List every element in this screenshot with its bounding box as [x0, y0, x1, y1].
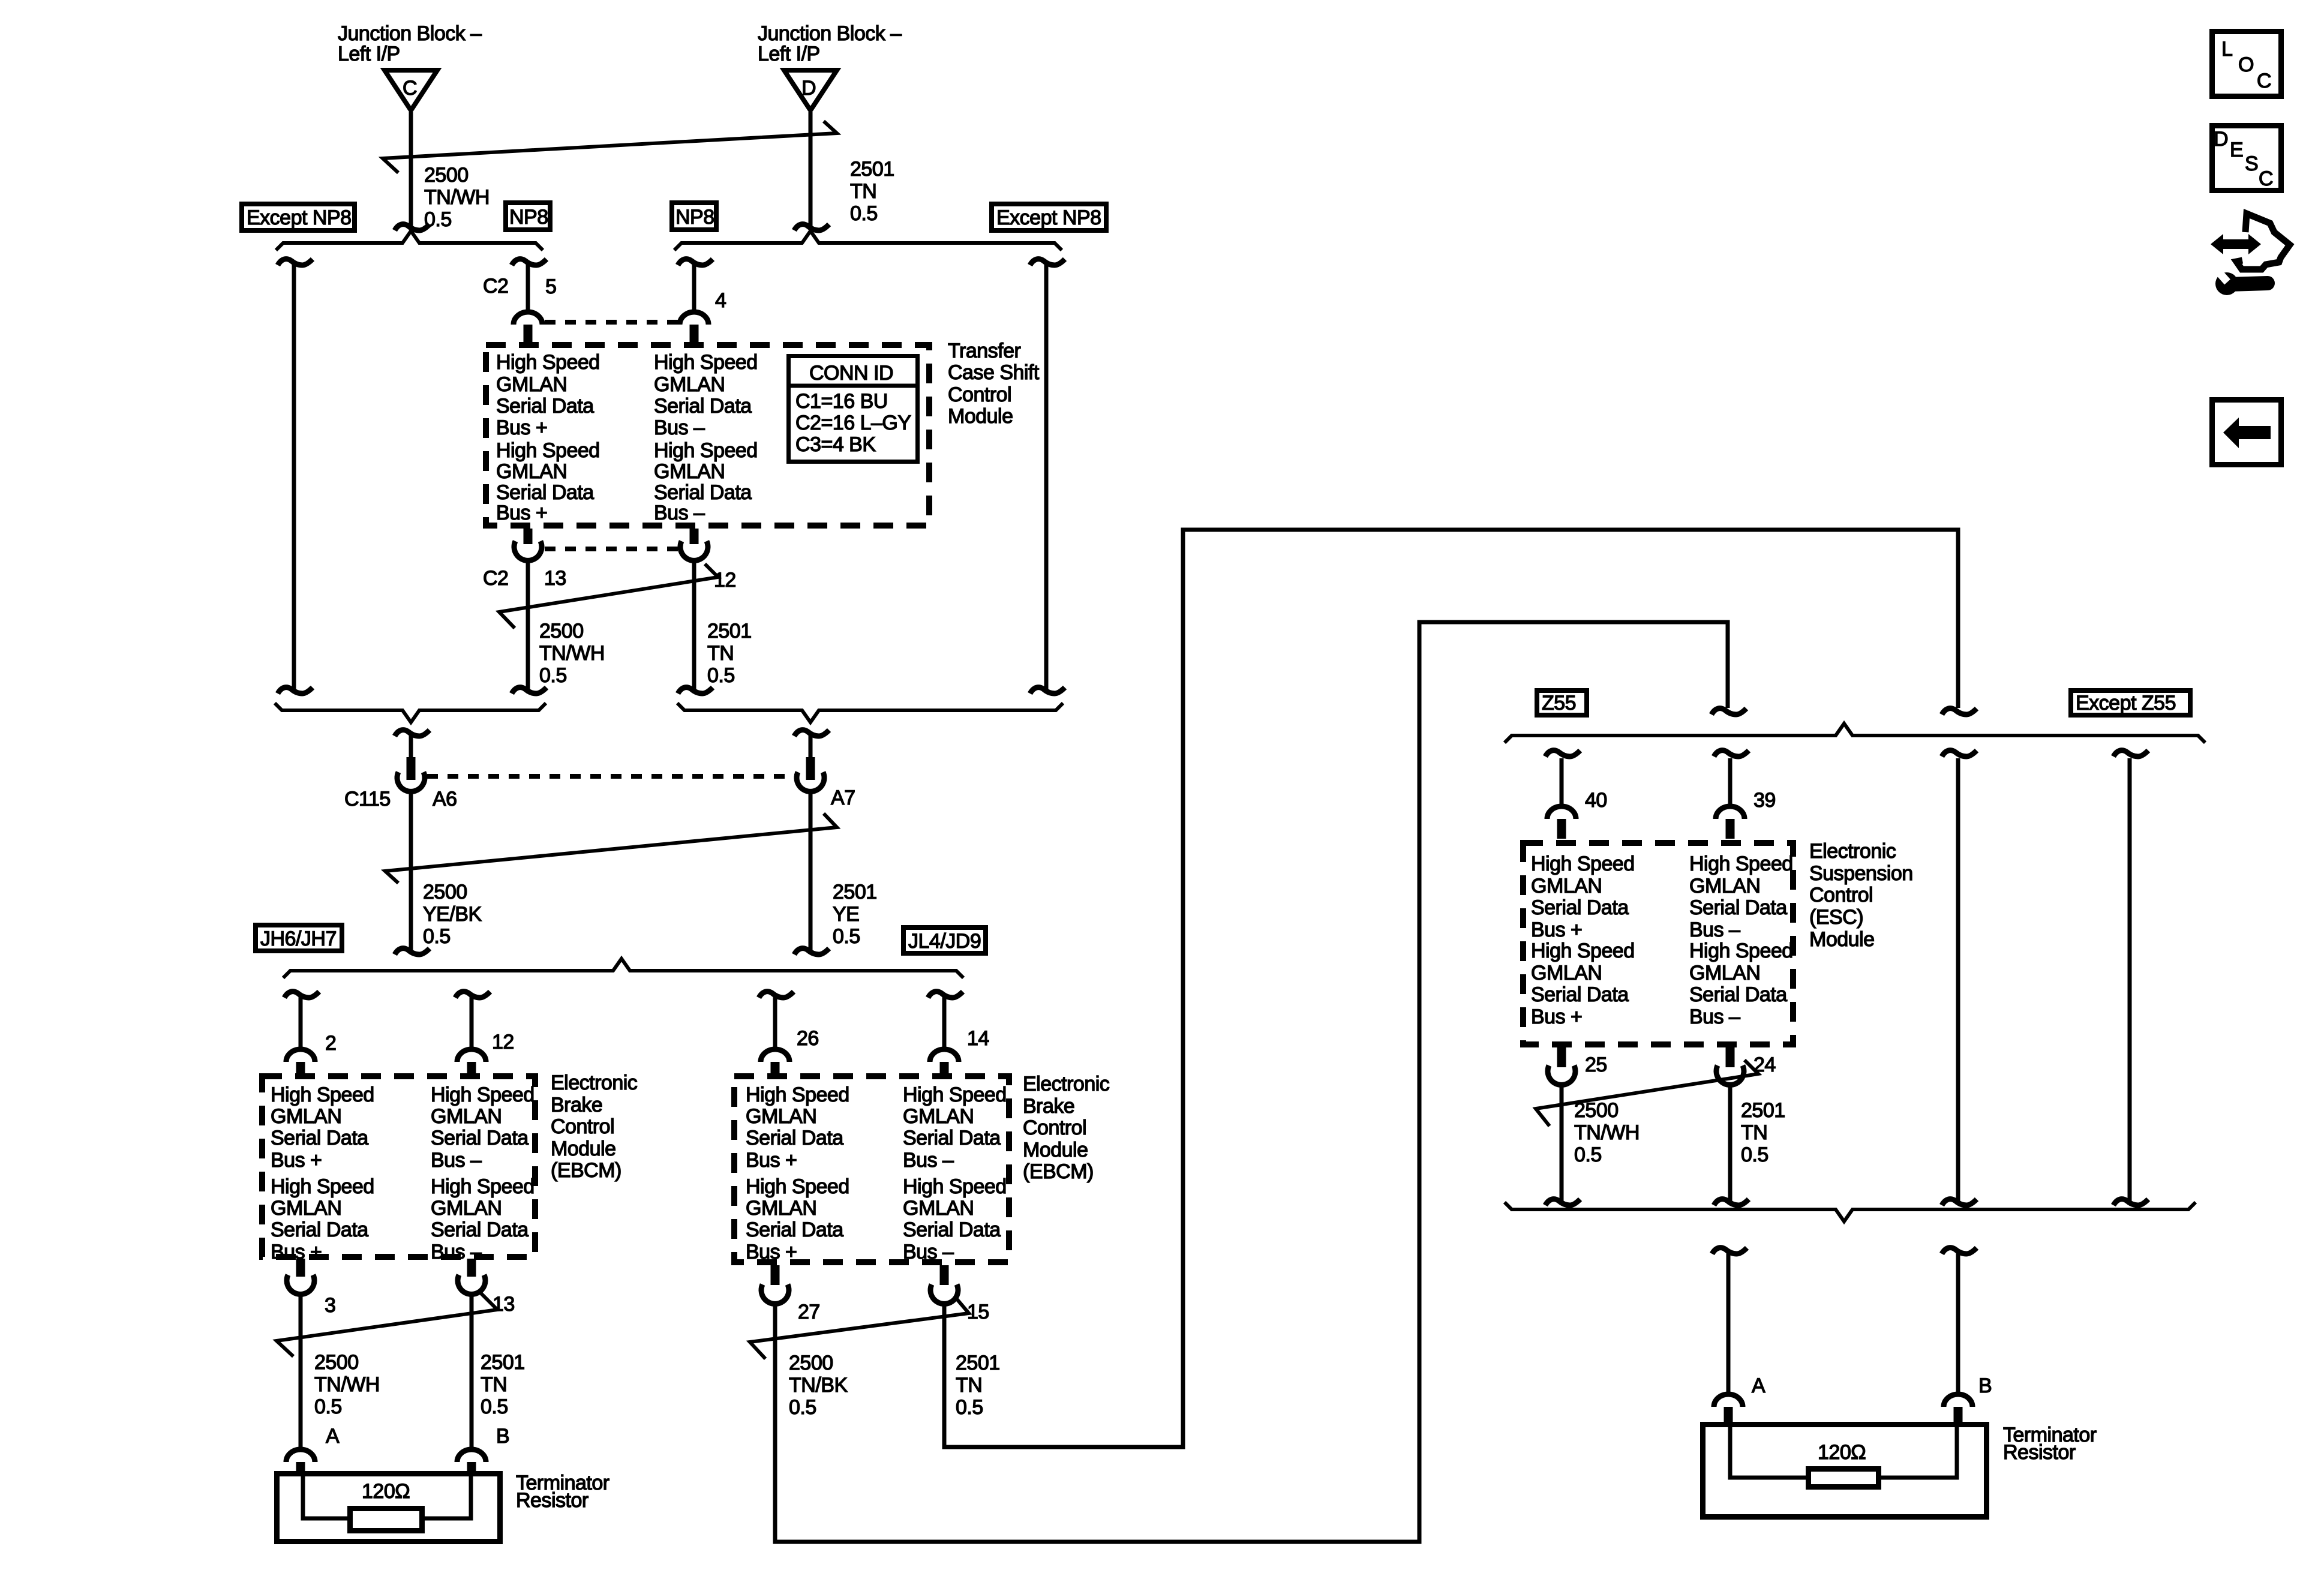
- svg-text:GMLAN: GMLAN: [1531, 875, 1602, 897]
- svg-text:Bus +: Bus +: [496, 416, 547, 439]
- svg-text:Z55: Z55: [1542, 692, 1576, 715]
- svg-text:(EBCM): (EBCM): [551, 1159, 621, 1182]
- connector arc pin 5: [514, 312, 542, 325]
- connector arc A right: [1714, 1394, 1743, 1407]
- svg-text:Brake: Brake: [551, 1094, 602, 1116]
- svg-text:Electronic: Electronic: [551, 1071, 638, 1094]
- connector arc A left: [286, 1449, 315, 1462]
- svg-text:A7: A7: [831, 787, 855, 809]
- hook above rejoin pin13: [512, 688, 547, 694]
- wire pin14: [942, 995, 947, 1050]
- svg-text:Bus –: Bus –: [903, 1241, 954, 1263]
- wire pin40: [1560, 758, 1564, 806]
- svg-text:2501: 2501: [833, 881, 877, 903]
- connector C2 dash line (top): [545, 320, 678, 325]
- svg-text:Module: Module: [1023, 1139, 1088, 1161]
- hook below rejoin brace 2: [794, 730, 829, 736]
- wire except-NP8 left branch: [292, 262, 296, 691]
- svg-text:C1=16 BU: C1=16 BU: [795, 390, 888, 413]
- svg-text:NP8: NP8: [509, 206, 548, 229]
- svg-text:40: 40: [1585, 789, 1607, 812]
- svg-text:0.5: 0.5: [789, 1396, 816, 1419]
- svg-text:High Speed: High Speed: [271, 1175, 374, 1198]
- svg-text:Serial Data: Serial Data: [431, 1218, 529, 1241]
- wire pin39: [1728, 758, 1733, 806]
- svg-text:Bus –: Bus –: [1689, 1005, 1740, 1028]
- svg-text:2501: 2501: [707, 620, 752, 643]
- hook riser B above Z55 brace: [1712, 709, 1746, 715]
- DESC icon box: [2212, 126, 2281, 191]
- svg-text:0.5: 0.5: [956, 1396, 983, 1419]
- svg-text:C115: C115: [344, 788, 391, 810]
- svg-text:GMLAN: GMLAN: [496, 460, 567, 483]
- svg-text:Bus +: Bus +: [496, 502, 547, 524]
- wire exceptZ55 line2: [2128, 758, 2132, 1202]
- wire pin15 routing to riser A: [944, 530, 1958, 1447]
- svg-text:High Speed: High Speed: [654, 351, 758, 374]
- svg-text:Module: Module: [1809, 928, 1875, 951]
- wire pin13b down: [470, 1292, 474, 1450]
- hook EBCM-L pin2: [284, 992, 319, 998]
- svg-text:2501: 2501: [481, 1351, 525, 1374]
- svg-text:B: B: [496, 1425, 509, 1448]
- svg-text:GMLAN: GMLAN: [271, 1197, 341, 1220]
- svg-text:14: 14: [967, 1027, 989, 1050]
- pin stub 15: [940, 1265, 949, 1285]
- svg-text:Module: Module: [948, 405, 1013, 428]
- pin stub 25: [1557, 1047, 1566, 1067]
- svg-text:Module: Module: [551, 1137, 616, 1160]
- svg-text:Transfer: Transfer: [948, 340, 1021, 362]
- svg-text:C2: C2: [483, 567, 508, 590]
- pin stub 12: [690, 529, 699, 544]
- resistor element left: [350, 1509, 422, 1531]
- rejoin brace 2 (to A7): [677, 703, 1063, 722]
- svg-text:High Speed: High Speed: [654, 439, 758, 462]
- svg-text:Suspension: Suspension: [1809, 862, 1913, 885]
- svg-text:2500: 2500: [789, 1352, 833, 1374]
- hook EBCM-L pin12: [455, 992, 490, 998]
- svg-text:Junction Block –: Junction Block –: [758, 22, 902, 45]
- terminator internal wires left: [303, 1471, 347, 1518]
- svg-text:GMLAN: GMLAN: [496, 373, 567, 396]
- connector cup pin 25: [1548, 1065, 1575, 1085]
- svg-text:Except Z55: Except Z55: [2076, 692, 2176, 715]
- svg-text:Serial Data: Serial Data: [654, 481, 752, 504]
- svg-text:High Speed: High Speed: [1689, 939, 1793, 962]
- option label JL4/JD9: [903, 927, 986, 953]
- svg-text:Brake: Brake: [1023, 1095, 1074, 1118]
- svg-text:Serial Data: Serial Data: [496, 481, 594, 504]
- svg-text:Control: Control: [948, 383, 1011, 406]
- svg-text:O: O: [2238, 53, 2254, 76]
- hook exceptZ55 line2 below brace: [2113, 751, 2148, 757]
- svg-text:2500: 2500: [423, 881, 467, 903]
- svg-text:Serial Data: Serial Data: [746, 1127, 843, 1149]
- wire except-NP8 right branch: [1044, 262, 1049, 691]
- svg-text:B: B: [1978, 1374, 1992, 1397]
- svg-text:Bus –: Bus –: [1689, 918, 1740, 941]
- svg-text:GMLAN: GMLAN: [903, 1105, 974, 1128]
- svg-text:0.5: 0.5: [314, 1395, 342, 1418]
- svg-text:25: 25: [1585, 1053, 1607, 1076]
- wire exceptZ55 line1: [1956, 758, 1960, 1202]
- svg-text:0.5: 0.5: [539, 664, 567, 687]
- svg-text:13: 13: [544, 567, 566, 590]
- svg-text:2500: 2500: [424, 164, 469, 187]
- connector cup pin 13b: [458, 1275, 485, 1294]
- wire pin2: [299, 995, 303, 1050]
- wire to terminator B right: [1956, 1251, 1960, 1395]
- svg-text:2500: 2500: [539, 620, 584, 643]
- svg-text:A: A: [326, 1425, 340, 1448]
- svg-text:C: C: [2257, 70, 2271, 92]
- svg-text:GMLAN: GMLAN: [746, 1197, 816, 1220]
- wire pin13 down: [526, 558, 530, 691]
- svg-text:Serial Data: Serial Data: [1531, 983, 1629, 1006]
- svg-text:2501: 2501: [956, 1352, 1000, 1374]
- svg-text:Left I/P: Left I/P: [758, 43, 820, 65]
- svg-text:Bus –: Bus –: [431, 1149, 482, 1172]
- svg-text:GMLAN: GMLAN: [1689, 875, 1760, 897]
- svg-text:D: D: [801, 77, 816, 100]
- svg-text:0.5: 0.5: [1574, 1143, 1602, 1166]
- svg-text:High Speed: High Speed: [496, 439, 600, 462]
- svg-text:Junction Block –: Junction Block –: [338, 22, 482, 45]
- svg-text:13: 13: [493, 1293, 515, 1316]
- svg-text:Serial Data: Serial Data: [1689, 983, 1787, 1006]
- terminator internal wires right: [1730, 1422, 1806, 1478]
- hook riser A above Z55 brace: [1942, 709, 1977, 715]
- terminator resistor box left: [277, 1474, 500, 1542]
- connector cup pin 13: [514, 541, 542, 560]
- pin stub 13: [524, 529, 533, 544]
- connector arc B right: [1944, 1394, 1972, 1407]
- hook below rejoin brace 1: [395, 730, 430, 736]
- svg-text:GMLAN: GMLAN: [654, 373, 725, 396]
- hook exceptZ55 line2 above lower Z55 brace: [2113, 1199, 2148, 1205]
- hook exceptZ55 line1 above lower Z55 brace: [1942, 1199, 1977, 1205]
- svg-text:YE: YE: [833, 903, 859, 926]
- ESC module box: [1523, 843, 1793, 1044]
- svg-text:C: C: [2259, 167, 2273, 190]
- service icon wrench: [2229, 283, 2268, 284]
- connector C115 dash line: [427, 774, 795, 779]
- svg-text:High Speed: High Speed: [1531, 939, 1635, 962]
- svg-text:0.5: 0.5: [1741, 1143, 1768, 1166]
- svg-text:TN: TN: [481, 1373, 507, 1396]
- hook pin25 wire above lower Z55 brace: [1545, 1199, 1580, 1205]
- connector cup C115 A7: [797, 772, 824, 791]
- wire NP8 pin5 drop: [526, 262, 530, 313]
- hook above JH brace A7: [794, 948, 829, 954]
- option label Except Z55: [2071, 691, 2190, 715]
- svg-text:Bus +: Bus +: [1531, 1005, 1582, 1028]
- svg-text:Bus +: Bus +: [746, 1149, 797, 1172]
- wire to C115 A6: [409, 733, 413, 760]
- svg-text:S: S: [2245, 152, 2258, 175]
- pin stub 13b: [467, 1259, 476, 1277]
- option label Z55: [1537, 691, 1587, 715]
- svg-text:Control: Control: [551, 1115, 614, 1138]
- svg-text:D: D: [2214, 128, 2228, 151]
- wire break hook under D: [794, 224, 829, 230]
- back arrow icon box: [2212, 400, 2281, 465]
- svg-text:High Speed: High Speed: [903, 1083, 1007, 1106]
- svg-text:Bus +: Bus +: [271, 1149, 322, 1172]
- svg-text:High Speed: High Speed: [271, 1083, 374, 1106]
- hook above rejoin left-branch: [278, 688, 313, 694]
- svg-text:JL4/JD9: JL4/JD9: [908, 930, 981, 953]
- svg-text:TN/WH: TN/WH: [539, 642, 605, 665]
- pin stub 3: [296, 1259, 305, 1277]
- svg-text:2500: 2500: [1574, 1099, 1619, 1122]
- svg-text:Except NP8: Except NP8: [247, 206, 352, 229]
- transfer case module box: [486, 345, 929, 526]
- svg-text:NP8: NP8: [675, 206, 714, 229]
- svg-text:Serial Data: Serial Data: [746, 1218, 843, 1241]
- svg-text:Electronic: Electronic: [1809, 840, 1896, 863]
- connector arc pin 40: [1547, 806, 1576, 819]
- twisted pair line top: [383, 121, 837, 173]
- svg-text:C2: C2: [483, 275, 508, 298]
- Z55 split brace: [1505, 724, 2205, 743]
- pin stub 4: [690, 325, 699, 343]
- svg-text:High Speed: High Speed: [746, 1083, 849, 1106]
- option brace 2 (D split): [674, 231, 1062, 250]
- svg-text:39: 39: [1753, 789, 1776, 812]
- svg-text:TN: TN: [956, 1374, 982, 1397]
- svg-text:15: 15: [967, 1301, 989, 1323]
- wire to C115 A7: [809, 733, 813, 760]
- hook EBCM-R pin26: [759, 992, 794, 998]
- service icon connector outline: [2236, 214, 2290, 269]
- wire D vertical: [809, 112, 813, 229]
- hook above JH brace A6: [395, 948, 430, 954]
- svg-text:Serial Data: Serial Data: [431, 1127, 529, 1149]
- svg-text:Serial Data: Serial Data: [271, 1218, 368, 1241]
- svg-text:Serial Data: Serial Data: [1689, 896, 1787, 919]
- svg-text:GMLAN: GMLAN: [431, 1197, 502, 1220]
- connector cup pin 24: [1716, 1065, 1744, 1085]
- resistor element right: [1809, 1469, 1879, 1487]
- svg-text:5: 5: [545, 275, 556, 298]
- svg-text:Resistor: Resistor: [2003, 1441, 2076, 1464]
- EBCM right module box: [734, 1076, 1009, 1262]
- svg-text:GMLAN: GMLAN: [271, 1105, 341, 1128]
- svg-text:Control: Control: [1809, 884, 1873, 906]
- split brace (EBCM split): [283, 959, 963, 978]
- hook EBCM-R pin14: [928, 992, 963, 998]
- svg-text:A: A: [1752, 1374, 1765, 1397]
- svg-text:High Speed: High Speed: [1531, 852, 1635, 875]
- option label NP8 (left): [506, 203, 550, 230]
- pin stub 27: [771, 1265, 780, 1285]
- option label Except NP8 (left): [242, 204, 355, 230]
- option label Except NP8 (right): [992, 204, 1106, 230]
- pin stub A6: [407, 757, 416, 780]
- svg-text:YE/BK: YE/BK: [423, 903, 482, 926]
- svg-text:GMLAN: GMLAN: [1531, 962, 1602, 984]
- rejoin brace 1 (to A6): [275, 703, 546, 722]
- wire pin26: [773, 995, 777, 1050]
- connector cup pin 12: [680, 541, 708, 560]
- connector arc B left: [457, 1449, 486, 1462]
- option label JH6/JH7: [256, 925, 342, 951]
- hook below rejoin to terminator A: [1712, 1248, 1747, 1254]
- connector arc pin 12: [457, 1049, 486, 1062]
- svg-text:0.5: 0.5: [707, 664, 735, 687]
- twisted pair line (ESC): [1536, 1060, 1758, 1126]
- twisted pair line (C2 bottom): [499, 564, 718, 628]
- Z55 rejoin brace: [1505, 1202, 2196, 1221]
- hook branch except-NP8 left: [278, 259, 313, 265]
- terminator resistor box right: [1703, 1425, 1987, 1517]
- svg-text:Bus –: Bus –: [654, 502, 705, 524]
- svg-text:Serial Data: Serial Data: [496, 395, 594, 418]
- hook above rejoin pin12: [678, 688, 713, 694]
- svg-text:GMLAN: GMLAN: [431, 1105, 502, 1128]
- svg-text:Serial Data: Serial Data: [1531, 896, 1629, 919]
- service icon double arrow: [2211, 234, 2261, 254]
- connector triangle D: [784, 70, 837, 110]
- svg-text:Case Shift: Case Shift: [948, 361, 1040, 384]
- svg-text:Serial Data: Serial Data: [903, 1127, 1001, 1149]
- connector arc pin 39: [1716, 806, 1744, 819]
- svg-text:GMLAN: GMLAN: [746, 1105, 816, 1128]
- svg-text:Serial Data: Serial Data: [271, 1127, 368, 1149]
- svg-text:Serial Data: Serial Data: [903, 1218, 1001, 1241]
- hook branch except-NP8 right: [1030, 259, 1065, 265]
- hook below rejoin to terminator B: [1942, 1248, 1977, 1254]
- pin stub 24: [1726, 1047, 1735, 1067]
- svg-text:High Speed: High Speed: [903, 1175, 1007, 1198]
- svg-text:26: 26: [797, 1027, 819, 1050]
- wire pin25 down: [1560, 1082, 1564, 1202]
- svg-text:(ESC): (ESC): [1809, 906, 1863, 929]
- svg-text:Electronic: Electronic: [1023, 1073, 1110, 1095]
- svg-text:A6: A6: [433, 788, 457, 810]
- svg-text:L: L: [2221, 38, 2232, 61]
- twisted pair line (EBCM-L): [277, 1293, 497, 1356]
- hook exceptZ55 line1 below brace: [1942, 751, 1977, 757]
- hook pin24 wire above lower Z55 brace: [1714, 1199, 1749, 1205]
- pin stub 5: [524, 325, 533, 343]
- wire pin3 down: [299, 1292, 303, 1450]
- svg-text:0.5: 0.5: [481, 1395, 508, 1418]
- wire NP8 pin4 drop: [692, 262, 696, 313]
- svg-text:12: 12: [492, 1031, 514, 1053]
- svg-text:2501: 2501: [1741, 1099, 1785, 1122]
- wire C vertical: [409, 112, 413, 229]
- svg-text:High Speed: High Speed: [496, 351, 600, 374]
- svg-text:0.5: 0.5: [850, 202, 878, 225]
- svg-text:Bus +: Bus +: [746, 1241, 797, 1263]
- wire to terminator A right: [1727, 1251, 1731, 1395]
- wire pin24 down: [1728, 1082, 1733, 1202]
- svg-text:High Speed: High Speed: [431, 1083, 535, 1106]
- hook above rejoin right-branch: [1030, 688, 1065, 694]
- EBCM left module box: [262, 1076, 535, 1257]
- twisted pair line (C115): [385, 813, 837, 883]
- hook branch NP8 pin4: [678, 259, 713, 265]
- LOC icon box: [2212, 32, 2281, 97]
- svg-text:TN/WH: TN/WH: [1574, 1121, 1640, 1144]
- svg-text:E: E: [2230, 139, 2243, 161]
- svg-text:0.5: 0.5: [833, 925, 860, 948]
- wire A7 down: [809, 789, 813, 953]
- connector arc pin 2: [286, 1049, 315, 1062]
- svg-text:120Ω: 120Ω: [1818, 1441, 1866, 1464]
- connector C2 dash line (bottom): [545, 547, 678, 551]
- svg-text:2: 2: [325, 1032, 336, 1055]
- svg-text:GMLAN: GMLAN: [903, 1197, 974, 1220]
- option label NP8 (right): [672, 203, 716, 230]
- svg-text:High Speed: High Speed: [1689, 852, 1793, 875]
- svg-text:27: 27: [798, 1301, 820, 1323]
- svg-text:120Ω: 120Ω: [362, 1480, 410, 1503]
- connector arc pin 4: [680, 312, 708, 325]
- svg-text:C3=4 BK: C3=4 BK: [795, 433, 876, 456]
- svg-text:C2=16 L–GY: C2=16 L–GY: [795, 412, 911, 434]
- svg-text:TN/WH: TN/WH: [424, 186, 490, 209]
- svg-text:GMLAN: GMLAN: [654, 460, 725, 483]
- connector triangle C: [385, 70, 437, 110]
- svg-text:Control: Control: [1023, 1116, 1086, 1139]
- svg-text:4: 4: [715, 289, 726, 312]
- twisted pair line (EBCM-R): [750, 1298, 969, 1359]
- wire pin12: [470, 995, 474, 1050]
- svg-text:Bus –: Bus –: [654, 416, 705, 439]
- connector cup pin 3: [287, 1275, 314, 1294]
- svg-text:TN: TN: [1741, 1121, 1767, 1144]
- wire pin27 routing to riser B: [775, 622, 1728, 1542]
- svg-text:TN: TN: [850, 180, 876, 203]
- svg-text:TN: TN: [707, 642, 734, 665]
- connector cup pin 15: [930, 1284, 958, 1304]
- svg-text:Except NP8: Except NP8: [996, 206, 1101, 229]
- wire A6 down: [409, 789, 413, 953]
- svg-text:Serial Data: Serial Data: [654, 395, 752, 418]
- connector arc pin 14: [930, 1049, 959, 1062]
- connector cup pin 27: [761, 1284, 789, 1304]
- svg-text:0.5: 0.5: [423, 925, 451, 948]
- connector arc pin 26: [761, 1049, 789, 1062]
- svg-text:2500: 2500: [314, 1351, 359, 1374]
- hook pin39 below brace: [1714, 751, 1749, 757]
- pin stub A7: [806, 757, 815, 780]
- svg-text:High Speed: High Speed: [746, 1175, 849, 1198]
- svg-text:TN/BK: TN/BK: [789, 1374, 848, 1397]
- svg-text:12: 12: [714, 569, 736, 592]
- wire pin12 down: [692, 558, 696, 691]
- option brace 1 (C split): [276, 231, 543, 250]
- hook branch NP8 pin5: [512, 259, 547, 265]
- svg-text:Bus +: Bus +: [1531, 918, 1582, 941]
- connector cup C115 A6: [397, 772, 425, 791]
- svg-text:JH6/JH7: JH6/JH7: [260, 927, 337, 950]
- svg-text:3: 3: [325, 1294, 335, 1317]
- hook pin40 below brace: [1545, 751, 1580, 757]
- svg-text:CONN ID: CONN ID: [809, 362, 893, 385]
- CONN ID table: [789, 356, 918, 462]
- svg-text:TN/WH: TN/WH: [314, 1373, 380, 1396]
- svg-text:Bus –: Bus –: [903, 1149, 954, 1172]
- svg-text:Resistor: Resistor: [516, 1489, 588, 1512]
- svg-text:(EBCM): (EBCM): [1023, 1160, 1094, 1183]
- svg-text:Left I/P: Left I/P: [338, 43, 400, 65]
- svg-text:C: C: [403, 77, 417, 100]
